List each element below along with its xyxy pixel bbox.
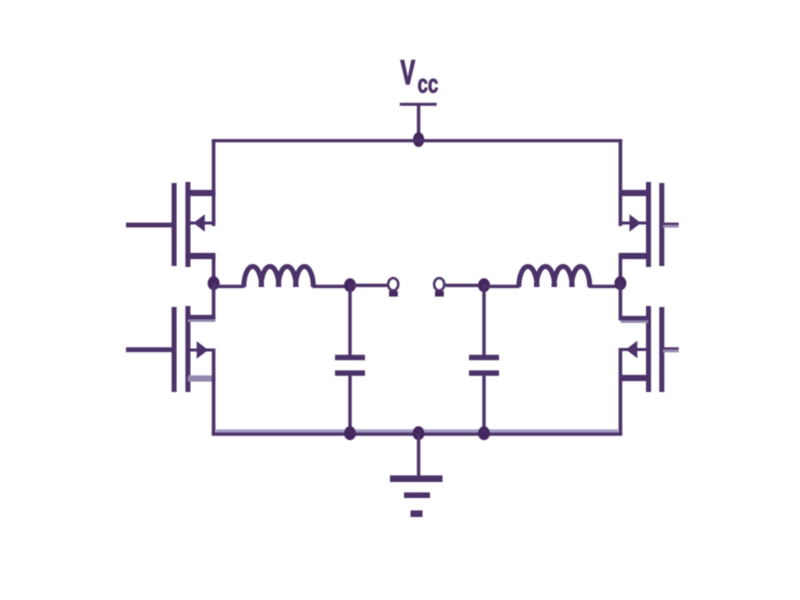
M4 source lead [621,375,648,381]
M2 body lead [190,349,214,352]
M3 channel bar [646,182,651,267]
junction dot right output node [614,276,626,290]
C1 top lead [348,285,351,355]
wire right rail middle segment [619,283,623,320]
wire Vcc stem [417,105,420,140]
M2 gate bar [172,307,177,392]
C2 top plate [469,355,499,360]
output terminal left [388,278,398,296]
wire left rail upper segment [212,139,216,226]
wire right output terminal to node C [446,284,485,287]
C2 top lead [482,285,485,355]
C2 bottom plate [469,370,499,375]
inductor L1 [244,266,314,287]
wire top rail [212,139,622,142]
junction dot node C [478,278,490,292]
M1 source lead [188,190,215,196]
wire left node to inductor L1 [214,285,245,288]
C2 bottom lead [482,376,485,434]
output terminal right [434,278,444,296]
M2 source lead [188,375,215,381]
wire right rail upper segment [619,139,623,226]
ground [390,433,443,517]
junction dot ground tap [413,426,425,440]
ground bar 3 [411,510,423,517]
Vcc supply bar [400,103,437,106]
junction dot C1 at bottom rail [344,426,356,440]
wire M3 drain corner down [619,253,623,283]
transistor M1 (top-left PMOS) [126,182,215,283]
M1 gate bar [172,183,177,266]
C1 top plate [335,355,365,360]
transistor M2 (bottom-left NMOS) [126,306,215,435]
M4 body arrow [626,341,638,359]
M2 drain lead [188,315,215,320]
M1 drain lead [188,253,215,259]
M1 gate lead [126,223,173,228]
wire M1 drain corner down [212,253,216,283]
wire M4 rail to bottom rail [619,348,623,435]
wire inductor L1 to node B [313,285,351,288]
M1 body lead [190,222,214,225]
capacitor C2 [469,285,499,434]
ground bar 1 [390,475,443,482]
node Vcc label [401,54,439,98]
junction dot node B [344,278,356,292]
junction dot C2 at bottom rail [478,426,490,440]
wire node B to output terminal [350,284,387,287]
M3 body arrow [630,214,641,232]
M4 gate lead [663,347,679,350]
M4 gate bar [659,307,664,392]
C1 bottom lead [348,376,351,434]
transistor M3 (top-right PMOS) [619,182,679,283]
wire node C to inductor L2 [484,285,519,288]
M3 gate lead [663,223,679,226]
capacitor C1 [335,285,365,434]
inductor L2 [519,267,590,288]
wire inductor L2 to right rail [589,285,621,288]
M3 drain lead [621,253,648,259]
wire M2 rail to bottom rail [212,349,216,435]
M1 body arrow [194,214,205,232]
junction dot at Vcc tap [413,132,424,147]
wire bottom rail [212,432,622,435]
M4 channel bar [646,306,651,392]
C1 bottom plate [335,370,365,375]
M3 source lead [621,190,648,196]
svg-text:V: V [401,54,416,92]
wire bottom rail light band [216,429,618,432]
wire left rail middle segment [212,283,216,318]
M4 body lead [620,348,646,351]
M3 gate bar [659,183,664,266]
junction dot left output node [208,276,220,290]
transistor M4 (bottom-right NMOS) [619,306,679,435]
ground bar 2 [404,492,430,498]
M2 channel bar [185,306,190,392]
M3 body lead [620,222,646,225]
M4 drain lead [621,316,648,321]
M2 body arrow [197,341,209,359]
M1 channel bar [185,182,190,267]
ground stem [417,433,420,477]
svg-text:cc: cc [417,68,438,98]
M2 gate lead [126,347,173,352]
